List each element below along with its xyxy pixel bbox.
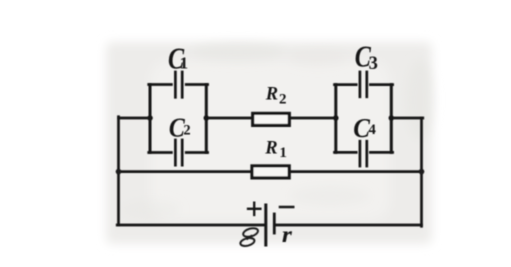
- wire: right outer vertical: [420, 118, 423, 226]
- label EMF script-E: [240, 227, 259, 248]
- wire: node B to resistor R2: [206, 117, 252, 120]
- svg-text:r: r: [282, 222, 293, 247]
- battery cell: long positive plate: [264, 205, 267, 245]
- left parallel block: right side wire: [205, 85, 208, 153]
- label C1: [168, 41, 188, 75]
- label C4: [353, 112, 376, 144]
- svg-text:R: R: [265, 85, 278, 105]
- wire: C4 branch left: [335, 151, 357, 154]
- wire: middle row, node D to right vertical: [391, 117, 423, 120]
- node D junction dot: [389, 115, 395, 121]
- label C3: [355, 39, 378, 74]
- battery - polarity mark: [280, 206, 293, 209]
- label R2: [265, 85, 287, 108]
- wire: C2 branch left: [149, 151, 172, 154]
- wire: C1 branch left: [149, 83, 172, 86]
- left parallel block: left side wire: [149, 85, 152, 153]
- label R1: [264, 139, 287, 161]
- resistor R2 body: [253, 113, 290, 125]
- right parallel block: right side wire: [390, 85, 393, 153]
- svg-text:4: 4: [368, 122, 376, 138]
- scanned paper background wash: [106, 42, 432, 244]
- wire: C4 branch right: [370, 151, 392, 154]
- capacitor C3 plates: [360, 72, 367, 97]
- capacitor C2 plates: [175, 140, 182, 165]
- svg-text:1: 1: [279, 145, 287, 161]
- wire: C3 branch left: [335, 83, 357, 86]
- svg-text:2: 2: [279, 91, 287, 107]
- label C2: [169, 112, 191, 143]
- wire: R1 row, right segment: [290, 170, 422, 173]
- svg-text:2: 2: [183, 123, 190, 139]
- wire: left outer vertical: [117, 117, 120, 225]
- junction dot left vertical / R1 wire: [116, 169, 122, 175]
- wire: C1 branch right: [186, 83, 207, 86]
- node C junction dot: [333, 115, 339, 121]
- battery cell: short negative plate: [273, 214, 276, 233]
- node B junction dot: [204, 115, 210, 121]
- svg-text:3: 3: [369, 54, 378, 74]
- svg-text:1: 1: [180, 54, 189, 73]
- wire: resistor R2 to node C: [290, 117, 336, 120]
- capacitor C4 plates: [360, 141, 367, 166]
- junction dot right vertical / R1 wire: [419, 169, 425, 175]
- wire: middle row, left vertical to node A: [119, 117, 151, 120]
- battery + polarity mark: [248, 203, 260, 215]
- wire: C3 branch right: [370, 83, 392, 86]
- wire: bottom, left segment to battery + plate: [117, 224, 264, 227]
- right parallel block: left side wire: [334, 85, 337, 153]
- node A junction dot: [147, 115, 153, 121]
- wire: R1 row, left segment: [119, 170, 252, 173]
- resistor R1 body: [252, 166, 289, 178]
- capacitor C1 plates: [175, 72, 182, 97]
- wire: bottom, right segment from battery - plate: [276, 224, 422, 227]
- svg-text:R: R: [264, 139, 277, 159]
- wire: C2 branch right: [186, 151, 207, 154]
